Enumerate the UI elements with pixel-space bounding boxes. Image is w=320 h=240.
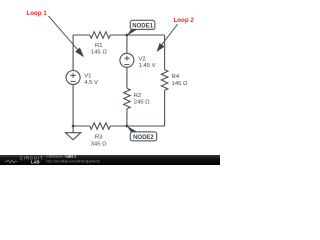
svg-text:245 Ω: 245 Ω bbox=[134, 99, 150, 105]
junction NODE1 on top wire bbox=[126, 34, 129, 37]
wire left upper vertical bbox=[72, 35, 74, 71]
footer bar bbox=[0, 155, 220, 165]
svg-text:1.45 V: 1.45 V bbox=[139, 63, 156, 69]
value label R2 bbox=[134, 93, 150, 106]
wire V2-to-R2 bbox=[126, 67, 128, 88]
footer title text bbox=[47, 155, 101, 164]
svg-text:R2: R2 bbox=[134, 93, 142, 99]
value label R4 bbox=[172, 74, 188, 87]
node label NODE1 bbox=[127, 20, 155, 35]
svg-text:V1: V1 bbox=[84, 73, 91, 79]
resistor R2 bbox=[124, 88, 131, 109]
svg-text:Pathikvhan / Lab2 1: Pathikvhan / Lab2 1 bbox=[47, 155, 77, 159]
svg-text:V2: V2 bbox=[139, 56, 146, 62]
node label NODE2 bbox=[127, 126, 157, 141]
svg-text:4.5 V: 4.5 V bbox=[84, 80, 98, 86]
value label R3 bbox=[91, 135, 107, 148]
svg-text:Loop 1: Loop 1 bbox=[27, 10, 48, 17]
wire R2-to-bottom bbox=[126, 109, 128, 126]
svg-text:R3: R3 bbox=[95, 135, 103, 141]
value label V2 bbox=[139, 56, 156, 69]
value label V1 bbox=[84, 73, 98, 86]
svg-text:R4: R4 bbox=[172, 74, 180, 80]
wire bottom right-of-R3 bbox=[110, 125, 164, 127]
svg-text:NODE2: NODE2 bbox=[133, 135, 154, 141]
svg-text:Loop 2: Loop 2 bbox=[174, 17, 195, 24]
annotation arrow Loop 2 bbox=[157, 24, 178, 52]
svg-text:NODE1: NODE1 bbox=[132, 23, 153, 29]
voltage source V2 bbox=[120, 53, 134, 67]
value label R1 bbox=[91, 43, 107, 56]
junction ground node bbox=[72, 125, 75, 128]
svg-text:145 Ω: 145 Ω bbox=[91, 50, 107, 56]
wire bottom R3-to-ground-junction bbox=[73, 125, 90, 127]
svg-text:145 Ω: 145 Ω bbox=[172, 81, 188, 87]
resistor R1 bbox=[90, 32, 111, 39]
svg-text:http://circuitlab.com/c/528ngk: http://circuitlab.com/c/528ngkqb6v2p bbox=[47, 159, 101, 163]
wire top R1-to-corner bbox=[110, 34, 164, 36]
resistor R4 bbox=[161, 70, 168, 91]
ground bbox=[65, 126, 80, 140]
wire V2 top lead bbox=[126, 35, 128, 53]
wire left lower vertical bbox=[72, 85, 74, 127]
wire right lower vertical bbox=[164, 90, 166, 126]
wire right upper vertical bbox=[164, 35, 166, 70]
svg-text:LAB: LAB bbox=[31, 159, 40, 164]
svg-text:345 Ω: 345 Ω bbox=[91, 142, 107, 148]
svg-text:R1: R1 bbox=[95, 43, 103, 49]
resistor R3 bbox=[90, 123, 111, 130]
footer logo CircuitLab bbox=[5, 156, 44, 165]
annotation arrow Loop 1 bbox=[48, 16, 84, 57]
wire top left-of-R1 bbox=[73, 34, 90, 36]
voltage source V1 bbox=[66, 71, 80, 85]
junction NODE2 on bottom wire bbox=[126, 125, 129, 128]
